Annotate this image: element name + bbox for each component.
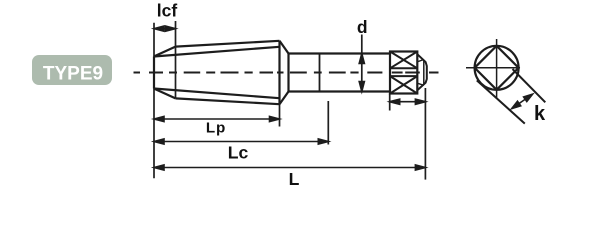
svg-text:Lc: Lc [228,143,249,163]
svg-text:k: k [534,103,546,125]
svg-text:d: d [357,17,368,37]
svg-text:Lp: Lp [206,119,226,136]
svg-text:L: L [289,169,300,189]
svg-text:TYPE9: TYPE9 [43,63,103,84]
svg-text:lcf: lcf [157,1,178,21]
